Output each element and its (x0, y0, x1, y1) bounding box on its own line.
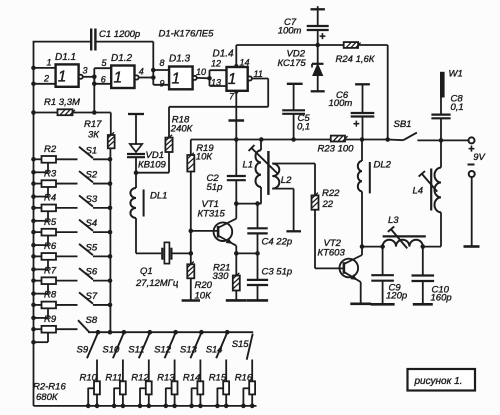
svg-text:R13: R13 (157, 373, 175, 384)
svg-text:1: 1 (58, 68, 67, 85)
svg-text:R7: R7 (44, 265, 57, 276)
svg-text:КТ315: КТ315 (198, 209, 226, 220)
svg-text:L4: L4 (413, 186, 424, 197)
svg-text:S13: S13 (180, 345, 198, 356)
svg-text:L2: L2 (281, 175, 292, 186)
svg-text:+: + (353, 119, 359, 131)
svg-text:8: 8 (160, 58, 165, 68)
svg-text:22: 22 (322, 199, 334, 210)
svg-text:S3: S3 (86, 194, 98, 205)
svg-text:R17: R17 (84, 119, 102, 130)
svg-text:R24 1,6К: R24 1,6К (336, 54, 376, 65)
svg-text:R23 100: R23 100 (318, 144, 355, 155)
svg-text:4: 4 (139, 67, 144, 77)
svg-text:160p: 160p (431, 293, 452, 304)
svg-text:DL1: DL1 (150, 191, 167, 202)
svg-text:D1.1: D1.1 (55, 52, 76, 63)
svg-text:R16: R16 (235, 373, 253, 384)
svg-text:C4 22p: C4 22p (262, 237, 293, 248)
svg-text:100m: 100m (329, 98, 353, 109)
svg-text:рисунок 1.: рисунок 1. (414, 376, 463, 387)
svg-text:10К: 10К (195, 291, 213, 302)
svg-text:100m: 100m (278, 26, 302, 37)
svg-text:КТ603: КТ603 (318, 248, 346, 259)
svg-text:КС175: КС175 (278, 58, 307, 69)
svg-text:S15: S15 (232, 339, 250, 350)
svg-text:R22: R22 (322, 188, 340, 199)
svg-text:3К: 3К (88, 130, 100, 141)
svg-text:D1-К176ЛЕ5: D1-К176ЛЕ5 (159, 28, 215, 39)
svg-text:330: 330 (213, 271, 230, 282)
svg-text:9: 9 (160, 79, 165, 89)
svg-text:S14: S14 (206, 345, 223, 356)
svg-text:S2: S2 (86, 170, 98, 181)
svg-text:R15: R15 (209, 373, 227, 384)
svg-text:Q1: Q1 (140, 266, 153, 277)
svg-text:S11: S11 (128, 345, 144, 356)
svg-text:S12: S12 (154, 345, 172, 356)
svg-text:R4: R4 (44, 193, 56, 204)
svg-text:51p: 51p (207, 182, 223, 193)
svg-text:6: 6 (101, 75, 106, 85)
svg-text:R14: R14 (183, 373, 200, 384)
svg-text:13: 13 (211, 78, 221, 88)
svg-text:S7: S7 (86, 291, 98, 302)
svg-text:DL2: DL2 (374, 160, 392, 171)
svg-text:1: 1 (114, 70, 123, 87)
svg-text:680К: 680К (36, 392, 59, 403)
svg-text:11: 11 (254, 69, 263, 79)
svg-text:1: 1 (228, 71, 237, 88)
svg-text:S8: S8 (86, 315, 98, 326)
svg-text:12: 12 (211, 59, 221, 69)
svg-text:2: 2 (43, 74, 49, 84)
svg-text:S1: S1 (86, 145, 98, 156)
svg-text:D1.2: D1.2 (111, 53, 133, 64)
svg-text:SB1: SB1 (394, 119, 412, 130)
svg-text:R6: R6 (44, 241, 57, 252)
svg-text:0,1: 0,1 (297, 122, 310, 133)
svg-text:1: 1 (172, 71, 181, 88)
svg-text:C1 1200p: C1 1200p (99, 29, 140, 40)
svg-text:S6: S6 (86, 267, 98, 278)
svg-text:R8: R8 (44, 290, 57, 301)
svg-text:R20: R20 (195, 280, 213, 291)
svg-text:R12: R12 (131, 373, 149, 384)
svg-text:R11: R11 (105, 373, 122, 384)
svg-text:R3: R3 (44, 168, 57, 179)
svg-text:R5: R5 (44, 217, 57, 228)
svg-text:9V: 9V (473, 152, 486, 163)
svg-text:120p: 120p (386, 291, 407, 302)
svg-text:D1.3: D1.3 (169, 54, 191, 65)
svg-text:S9: S9 (77, 345, 89, 356)
svg-text:W1: W1 (449, 69, 463, 80)
svg-text:3: 3 (83, 66, 88, 76)
svg-text:14: 14 (240, 58, 250, 68)
svg-text:L1: L1 (243, 160, 254, 171)
svg-text:R2: R2 (44, 144, 57, 155)
svg-text:240К: 240К (170, 124, 194, 135)
svg-text:10К: 10К (196, 152, 214, 163)
svg-text:R10: R10 (80, 373, 98, 384)
svg-text:C3 51p: C3 51p (262, 267, 293, 278)
svg-text:L3: L3 (388, 215, 399, 226)
svg-text:27,12МГц: 27,12МГц (135, 278, 179, 289)
svg-text:S10: S10 (102, 345, 120, 356)
svg-text:1: 1 (47, 58, 52, 68)
svg-text:0,1: 0,1 (451, 102, 464, 113)
svg-text:10: 10 (196, 67, 206, 77)
svg-text:R1 3,3М: R1 3,3М (44, 97, 80, 108)
svg-text:S5: S5 (86, 242, 98, 253)
svg-text:+: + (319, 31, 325, 43)
svg-text:КВ109: КВ109 (138, 160, 167, 171)
svg-text:S4: S4 (86, 218, 98, 229)
svg-text:R9: R9 (44, 314, 57, 325)
